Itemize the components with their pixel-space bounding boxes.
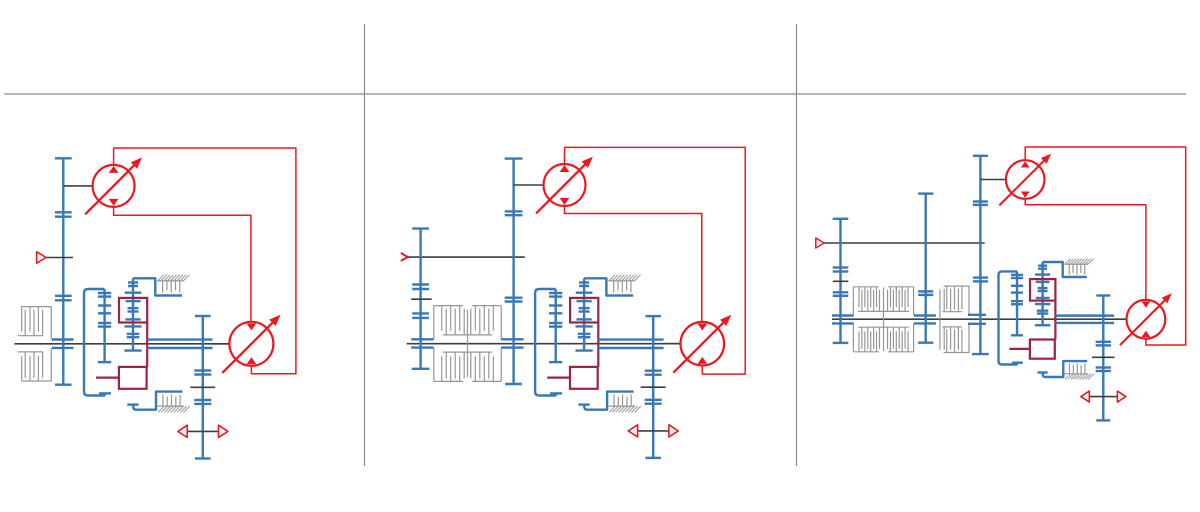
planet carrier bracket S1	[84, 289, 111, 396]
brake lower S2	[578, 392, 641, 413]
clutch upper S1	[18, 307, 52, 340]
countershaft bottom bearing S3	[918, 342, 933, 344]
pump drive top bearing S3	[973, 155, 988, 157]
brake upper S1	[133, 275, 190, 296]
hydraulic line high S1	[114, 148, 296, 374]
clutch coupling bars left S3	[832, 316, 854, 324]
range box upper S2	[570, 298, 598, 323]
coupling lines to output S1	[147, 340, 213, 348]
countershaft S3	[925, 194, 927, 343]
pump P2	[536, 157, 593, 214]
hydraulic line low S2	[565, 206, 702, 322]
brake upper S3	[1043, 259, 1094, 277]
output gear pair B S2	[645, 400, 662, 404]
output shaft tick S2	[641, 386, 666, 388]
output shaft bottom bearing S1	[195, 457, 211, 459]
coupling lines to output S3	[1055, 316, 1114, 323]
dual clutch block S2	[434, 306, 501, 382]
pump drive bottom bearing S2	[505, 383, 522, 385]
pump drive shaft S3	[979, 156, 981, 354]
output gear pair A S2	[645, 371, 662, 375]
pump drive gear pair upper S3	[973, 202, 988, 205]
output gear pair B S1	[194, 400, 211, 404]
clutch single S3	[940, 286, 969, 352]
motor M2	[673, 315, 731, 373]
hydraulic line low S3	[1025, 199, 1146, 300]
countershaft S2	[419, 229, 421, 369]
range stub S3	[1009, 348, 1030, 350]
pump drive bottom bearing S3	[972, 353, 989, 355]
range box lower S3	[1030, 340, 1055, 359]
axis shaft line S2	[407, 343, 681, 345]
input shaft bottom bearing S1	[55, 384, 72, 386]
pump drive link S1	[63, 185, 92, 187]
pump drive gear pair lower S3	[973, 278, 988, 282]
countershaft top bearing S2	[412, 227, 429, 229]
range stub S2	[547, 377, 570, 379]
input gear pair upper S1	[55, 212, 72, 216]
range box upper S1	[119, 298, 147, 323]
output shaft S1	[202, 316, 204, 459]
gear column middle S3	[1035, 262, 1050, 325]
countershaft gear pair upper S2	[412, 285, 429, 290]
brake upper S2	[584, 275, 641, 296]
clutch coupling bars S1	[52, 340, 74, 348]
axis shaft line S3	[832, 318, 1127, 320]
pump drive top bearing S2	[505, 157, 523, 159]
range stub S1	[96, 377, 119, 379]
countershaft top bearing S3	[918, 192, 933, 194]
pump drive link S2	[514, 184, 544, 186]
countershaft gear pair S3	[918, 291, 933, 295]
clutch lower S1	[18, 348, 52, 381]
gear column middle S1	[124, 278, 141, 350]
input arrow S3	[816, 238, 985, 248]
table horizontal rule	[4, 93, 1186, 95]
axis shaft line S1	[15, 343, 230, 345]
clutch coupling bars right S3	[968, 315, 986, 324]
pump drive link S3	[980, 179, 1006, 181]
input shaft top bearing S1	[55, 157, 72, 159]
input gear pair lower S1	[55, 296, 72, 301]
pump P3	[999, 154, 1051, 206]
planet carrier bracket S3	[999, 271, 1023, 364]
range box upper S3	[1030, 279, 1055, 301]
motor link S1	[213, 343, 230, 345]
countershaft tick S2	[411, 298, 431, 300]
range link vertical S1	[146, 323, 148, 367]
output shaft S2	[652, 316, 654, 458]
brake lower S1	[127, 392, 190, 413]
hydraulic line low S1	[114, 207, 251, 322]
pump drive shaft S2	[512, 159, 514, 384]
motor link S2	[663, 343, 681, 345]
output shaft top bearing S2	[645, 315, 661, 317]
gear column middle S2	[576, 278, 593, 350]
output arrows S2	[628, 425, 678, 437]
pump P1	[85, 158, 142, 215]
input arrow S2	[401, 253, 525, 261]
gear column left S3	[1011, 275, 1023, 335]
gear column left S2	[549, 293, 562, 362]
countershaft bottom bearing S2	[412, 368, 430, 370]
planet carrier bracket S2	[535, 289, 562, 396]
clutch coupling bars left S2	[411, 339, 433, 347]
output shaft S3	[1102, 296, 1104, 421]
pump drive gear pair lower S2	[505, 298, 523, 302]
range box lower S2	[570, 367, 598, 389]
clutch coupling bars mid S3	[914, 316, 936, 324]
brake lower S3	[1037, 361, 1093, 379]
input gear pair A S3	[833, 268, 849, 272]
hydraulic line high S2	[565, 147, 746, 374]
output shaft bottom bearing S3	[1096, 419, 1110, 421]
input shaft S1	[62, 158, 64, 384]
pump drive gear pair upper S2	[505, 211, 523, 215]
output gear pair B S3	[1096, 368, 1111, 372]
input shaft bottom bearing S3	[833, 342, 849, 344]
output shaft top bearing S1	[195, 315, 211, 317]
coupling lines to output S2	[598, 340, 664, 348]
table vertical rule right	[796, 24, 798, 466]
motor M3	[1120, 293, 1172, 345]
input gear pair B S3	[833, 292, 849, 296]
output shaft bottom bearing S2	[645, 457, 661, 459]
range link vertical S2	[597, 323, 599, 367]
gear column left S1	[98, 293, 111, 362]
input arrow S1	[37, 252, 73, 263]
output gear pair A S1	[194, 371, 211, 375]
input shaft top bearing S3	[833, 218, 849, 220]
output shaft tick S3	[1092, 356, 1114, 358]
motor M1	[222, 315, 280, 373]
dual clutch block S3	[853, 287, 913, 352]
input shaft tick S3	[833, 280, 849, 282]
output arrows S3	[1081, 391, 1126, 402]
input shaft S3	[839, 219, 841, 343]
range link vertical S3	[1054, 301, 1056, 340]
clutch coupling bars right S2	[501, 339, 523, 347]
countershaft gear pair lower S2	[412, 313, 429, 318]
range box lower S1	[119, 367, 147, 389]
hydraulic line high S3	[1025, 147, 1186, 345]
output gear pair A S3	[1096, 342, 1111, 346]
table vertical rule left	[364, 24, 366, 466]
output shaft top bearing S3	[1096, 294, 1110, 296]
output shaft tick S1	[190, 386, 215, 388]
output arrows S1	[178, 425, 228, 437]
